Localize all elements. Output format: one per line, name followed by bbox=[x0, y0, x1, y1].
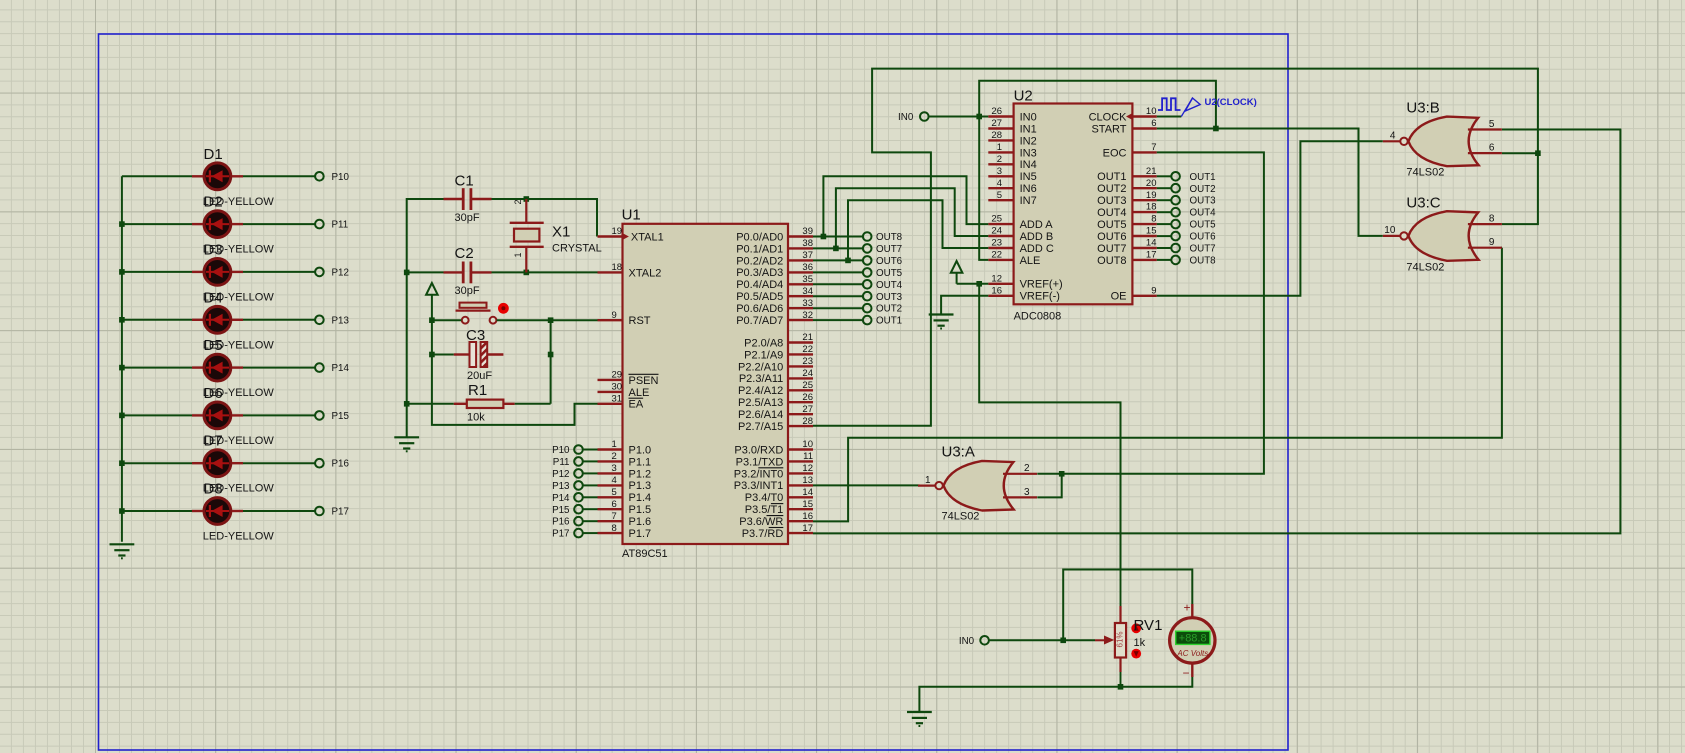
U1 pin 16 P3.6/WR bbox=[739, 511, 813, 528]
svg-text:P1.3: P1.3 bbox=[629, 480, 652, 492]
U2 pin 24 ADD B bbox=[988, 226, 1053, 243]
svg-text:1: 1 bbox=[925, 475, 931, 486]
LED D5 bbox=[192, 337, 274, 399]
wire terminal P10 to U1 bbox=[583, 449, 598, 451]
wire U3:A input 3 tie bbox=[1037, 474, 1061, 498]
svg-text:D7: D7 bbox=[204, 433, 223, 450]
svg-text:D8: D8 bbox=[204, 481, 223, 498]
svg-text:OUT6: OUT6 bbox=[1190, 232, 1217, 243]
svg-text:IN0: IN0 bbox=[898, 112, 914, 123]
wire P2.7 to U3:B.6 and U3:C.8 bbox=[813, 69, 1538, 426]
terminal P13 bbox=[315, 316, 324, 325]
U1 pin 13 P3.3/INT1 bbox=[734, 475, 813, 492]
wire C3 left bbox=[432, 354, 454, 356]
svg-text:OUT1: OUT1 bbox=[876, 316, 902, 327]
wire bus to D5 bbox=[122, 367, 192, 369]
svg-text:28: 28 bbox=[802, 416, 813, 427]
push button RESET bbox=[456, 303, 509, 324]
svg-text:U3:A: U3:A bbox=[942, 444, 975, 461]
U1 pin 18 XTAL2 bbox=[598, 262, 662, 279]
svg-text:23: 23 bbox=[802, 356, 813, 367]
svg-text:P10: P10 bbox=[552, 445, 570, 456]
U1 pin 35 P0.4/AD4 bbox=[736, 274, 813, 291]
wire U2 OUT7 to terminal bbox=[1157, 247, 1172, 249]
U1 pin 8 P1.7 bbox=[598, 523, 652, 540]
wire LED cathode bus bbox=[121, 176, 123, 542]
terminal P17 at U1 bbox=[552, 529, 583, 540]
wire U2 OUT1 to terminal bbox=[1157, 175, 1172, 177]
svg-text:1k: 1k bbox=[1134, 637, 1146, 649]
U2 pin 14 OUT7 bbox=[1097, 238, 1157, 255]
U1 pin 17 P3.7/RD bbox=[742, 523, 813, 540]
svg-text:OUT3: OUT3 bbox=[1190, 196, 1217, 207]
svg-text:8: 8 bbox=[1489, 214, 1495, 225]
wire U2 OUT6 to terminal bbox=[1157, 235, 1172, 237]
U1 pin 25 P2.4/A12 bbox=[738, 380, 813, 397]
U2 pin 20 OUT2 bbox=[1097, 178, 1157, 195]
terminal OUT3 left bbox=[863, 292, 903, 303]
svg-text:30pF: 30pF bbox=[455, 212, 480, 224]
wire START to U3:C.10 bbox=[1157, 129, 1383, 236]
svg-text:P2.3/A11: P2.3/A11 bbox=[739, 373, 783, 385]
svg-text:P3.3/INT1: P3.3/INT1 bbox=[734, 480, 784, 492]
LED D4 bbox=[192, 289, 274, 351]
ground G3 VREF- bbox=[929, 313, 954, 315]
terminal OUT4 left bbox=[863, 280, 903, 291]
svg-text:16: 16 bbox=[991, 285, 1002, 296]
terminal P10 bbox=[315, 172, 324, 181]
junction VREF+ bbox=[976, 281, 982, 287]
terminal P15 at U1 bbox=[552, 505, 583, 516]
svg-text:CLOCK: CLOCK bbox=[1089, 111, 1128, 123]
svg-text:5: 5 bbox=[612, 487, 617, 498]
svg-text:13: 13 bbox=[802, 475, 813, 486]
svg-text:D1: D1 bbox=[204, 146, 223, 163]
wire U2 OUT2 to terminal bbox=[1157, 187, 1172, 189]
svg-text:P14: P14 bbox=[552, 493, 570, 504]
svg-text:ADD B: ADD B bbox=[1020, 231, 1054, 243]
svg-text:OUT5: OUT5 bbox=[1190, 220, 1217, 231]
wire RST row left bbox=[432, 319, 462, 321]
svg-text:R1: R1 bbox=[468, 382, 487, 399]
svg-text:D3: D3 bbox=[204, 241, 223, 258]
svg-text:10: 10 bbox=[1146, 106, 1157, 117]
svg-text:P14: P14 bbox=[332, 363, 350, 374]
svg-text:IN5: IN5 bbox=[1020, 171, 1037, 183]
junction RST right bbox=[548, 317, 554, 323]
U2 pin 1 IN3 bbox=[988, 142, 1036, 159]
svg-text:P3.2/INT0: P3.2/INT0 bbox=[734, 468, 784, 480]
svg-text:P3.7/RD: P3.7/RD bbox=[742, 528, 784, 540]
svg-text:D2: D2 bbox=[204, 194, 223, 211]
LED D6 bbox=[192, 385, 274, 447]
svg-text:LED-YELLOW: LED-YELLOW bbox=[203, 531, 275, 543]
svg-text:OUT8: OUT8 bbox=[876, 232, 903, 243]
svg-text:30: 30 bbox=[612, 382, 623, 393]
svg-text:IN1: IN1 bbox=[1020, 123, 1037, 135]
svg-text:C2: C2 bbox=[455, 245, 474, 262]
U2 pin 3 IN5 bbox=[988, 166, 1036, 183]
terminal OUT2 left bbox=[863, 304, 902, 315]
svg-text:IN3: IN3 bbox=[1020, 147, 1037, 159]
wire terminal P14 to U1 bbox=[583, 496, 598, 498]
U1 pin 7 P1.6 bbox=[598, 511, 652, 528]
U1 pin 39 P0.0/AD0 bbox=[736, 226, 813, 243]
wire U1 P0.1 to terminal OUT7 bbox=[813, 247, 863, 249]
svg-text:RST: RST bbox=[629, 315, 651, 327]
svg-text:14: 14 bbox=[1146, 238, 1157, 249]
wire C2 left bbox=[407, 271, 444, 273]
U1 pin 34 P0.5/AD5 bbox=[736, 286, 813, 303]
LED D3 bbox=[192, 241, 274, 303]
svg-text:15: 15 bbox=[1146, 226, 1157, 237]
svg-text:D6: D6 bbox=[204, 385, 223, 402]
ground G4 bottom bbox=[907, 711, 932, 713]
svg-text:10: 10 bbox=[802, 439, 813, 450]
resistor R1 bbox=[454, 382, 515, 424]
svg-text:4: 4 bbox=[1390, 131, 1396, 142]
svg-text:31: 31 bbox=[612, 393, 623, 404]
svg-text:P15: P15 bbox=[552, 505, 570, 516]
U2 pin 23 ADD C bbox=[988, 238, 1054, 255]
svg-text:ALE: ALE bbox=[1020, 255, 1041, 267]
svg-text:ADD A: ADD A bbox=[1020, 219, 1054, 231]
wire IN0 to RV1 wiper bbox=[989, 639, 1095, 641]
junction U3:A input tie bbox=[1059, 471, 1065, 477]
terminal P13 at U1 bbox=[552, 481, 583, 492]
junction RV1 bottom bbox=[1118, 684, 1124, 690]
svg-text:27: 27 bbox=[991, 118, 1002, 129]
wire terminal P13 to U1 bbox=[583, 484, 598, 486]
svg-text:P3.5/T1: P3.5/T1 bbox=[745, 504, 784, 516]
U2 pin 17 OUT8 bbox=[1097, 250, 1157, 267]
svg-text:24: 24 bbox=[802, 368, 813, 379]
svg-text:ALE: ALE bbox=[629, 387, 650, 399]
svg-text:9: 9 bbox=[1489, 237, 1495, 248]
junction LED bus row D5 bbox=[119, 365, 125, 371]
U2 pin 26 IN0 bbox=[988, 106, 1036, 123]
junction RST vertical at C3 bbox=[429, 352, 435, 358]
svg-text:9: 9 bbox=[1151, 285, 1156, 296]
svg-text:P2.6/A14: P2.6/A14 bbox=[738, 409, 783, 421]
wire bus to D6 bbox=[122, 414, 192, 416]
svg-text:OUT4: OUT4 bbox=[876, 280, 903, 291]
wire bus to D1 bbox=[122, 175, 192, 177]
wire RST loop to EA bbox=[432, 320, 598, 425]
svg-text:C1: C1 bbox=[455, 173, 474, 190]
U1 pin 38 P0.1/AD1 bbox=[736, 238, 813, 255]
U2 pin 4 IN6 bbox=[988, 178, 1036, 195]
svg-text:P3.4/T0: P3.4/T0 bbox=[745, 492, 784, 504]
svg-text:OUT8: OUT8 bbox=[1190, 255, 1217, 266]
svg-text:P13: P13 bbox=[332, 315, 350, 326]
svg-text:CRYSTAL: CRYSTAL bbox=[552, 243, 602, 255]
wire U2 OUT8 to terminal bbox=[1157, 259, 1172, 261]
svg-text:4: 4 bbox=[997, 178, 1002, 189]
svg-text:IN2: IN2 bbox=[1020, 135, 1037, 147]
svg-text:2: 2 bbox=[1024, 463, 1030, 474]
wire U1 P0.2 to terminal OUT6 bbox=[813, 259, 863, 261]
svg-text:VREF(+): VREF(+) bbox=[1020, 279, 1063, 291]
svg-text:P0.7/AD7: P0.7/AD7 bbox=[736, 315, 783, 327]
U1 pin 24 P2.3/A11 bbox=[739, 368, 813, 385]
svg-text:P16: P16 bbox=[332, 459, 350, 470]
terminal OUT5 left bbox=[863, 268, 903, 279]
wire D4 to terminal P13 bbox=[243, 319, 315, 321]
svg-text:+: + bbox=[1183, 601, 1190, 615]
wire terminal P16 to U1 bbox=[583, 520, 598, 522]
wire VREF+ to RV1 top bbox=[979, 284, 1120, 570]
svg-text:8: 8 bbox=[1151, 214, 1156, 225]
U1 pin 19 XTAL1 bbox=[598, 226, 664, 243]
svg-text:P0.5/AD5: P0.5/AD5 bbox=[736, 291, 783, 303]
svg-text:P15: P15 bbox=[332, 411, 350, 422]
junction LED bus row D6 bbox=[119, 413, 125, 419]
wire D3 to terminal P12 bbox=[243, 271, 315, 273]
svg-text:OUT3: OUT3 bbox=[1097, 195, 1126, 207]
wire branch U3:B pin 6 bbox=[1502, 152, 1538, 154]
svg-text:2: 2 bbox=[513, 199, 523, 204]
svg-text:P2.0/A8: P2.0/A8 bbox=[744, 337, 783, 349]
svg-text:61%: 61% bbox=[1116, 631, 1125, 647]
wire P3.6/WR to U3:C.9 bbox=[813, 248, 1502, 522]
U1 pin 15 P3.5/T1 bbox=[745, 499, 813, 516]
junction LED bus row D7 bbox=[119, 460, 125, 466]
svg-text:OUT8: OUT8 bbox=[1097, 255, 1126, 267]
wire bus to D8 bbox=[122, 510, 192, 512]
svg-text:P12: P12 bbox=[332, 267, 349, 278]
junction START riser bbox=[1213, 126, 1219, 132]
U1 pin 26 P2.5/A13 bbox=[738, 392, 813, 409]
svg-text:OUT2: OUT2 bbox=[1190, 184, 1216, 195]
svg-text:22: 22 bbox=[802, 344, 813, 355]
terminal P14 bbox=[315, 363, 324, 372]
svg-text:OUT6: OUT6 bbox=[876, 256, 903, 267]
svg-text:28: 28 bbox=[991, 130, 1002, 141]
svg-text:15: 15 bbox=[802, 499, 813, 510]
wire D1 to terminal P10 bbox=[243, 175, 315, 177]
svg-text:IN7: IN7 bbox=[1020, 195, 1037, 207]
wire U1 P0.6 to terminal OUT2 bbox=[813, 307, 863, 309]
terminal OUT7 left bbox=[863, 244, 902, 255]
junction crystal pin1 bbox=[524, 270, 530, 276]
ground LED bus bbox=[110, 543, 135, 545]
svg-text:1: 1 bbox=[513, 252, 523, 257]
svg-text:AC Volts: AC Volts bbox=[1176, 649, 1208, 658]
svg-text:25: 25 bbox=[802, 380, 813, 391]
svg-text:5: 5 bbox=[1489, 119, 1495, 130]
svg-text:P1.5: P1.5 bbox=[629, 504, 652, 516]
svg-text:XTAL2: XTAL2 bbox=[629, 267, 662, 279]
svg-text:RV1: RV1 bbox=[1134, 617, 1163, 634]
svg-text:12: 12 bbox=[991, 273, 1002, 284]
wire START riser to ALE bbox=[979, 81, 1216, 260]
capacitor C3 bbox=[454, 327, 504, 382]
svg-text:P3.0/RXD: P3.0/RXD bbox=[734, 444, 783, 456]
ADC U2 ADC0808 body bbox=[1014, 104, 1133, 305]
svg-text:P3.1/TXD: P3.1/TXD bbox=[736, 456, 784, 468]
svg-text:38: 38 bbox=[802, 238, 813, 249]
junction P0.2 bbox=[845, 258, 851, 264]
NOR gate U3:A 74LS02 bbox=[944, 461, 1014, 511]
svg-text:4: 4 bbox=[612, 475, 617, 486]
wire P3.3/INT1 to U3:A output bbox=[813, 484, 920, 486]
U1 pin 14 P3.4/T0 bbox=[745, 487, 813, 504]
svg-text:33: 33 bbox=[802, 298, 813, 309]
svg-text:U2(CLOCK): U2(CLOCK) bbox=[1205, 97, 1257, 108]
U2 pin 10 CLOCK bbox=[1089, 106, 1157, 123]
svg-text:3: 3 bbox=[1024, 487, 1030, 498]
svg-text:OUT4: OUT4 bbox=[1097, 207, 1126, 219]
svg-text:X1: X1 bbox=[552, 224, 570, 241]
capacitor C2 bbox=[444, 245, 492, 297]
wire U1 P0.5 to terminal OUT3 bbox=[813, 295, 863, 297]
svg-text:74LS02: 74LS02 bbox=[1406, 167, 1444, 179]
svg-text:3: 3 bbox=[612, 463, 617, 474]
svg-text:1: 1 bbox=[997, 142, 1002, 153]
wire terminal P15 to U1 bbox=[583, 508, 598, 510]
U1 pin 12 P3.2/INT0 bbox=[734, 463, 813, 480]
svg-text:D5: D5 bbox=[204, 337, 223, 354]
svg-text:P0.2/AD2: P0.2/AD2 bbox=[736, 255, 783, 267]
U1 pin 29 PSEN bbox=[598, 370, 659, 387]
wire U1 P0.7 to terminal OUT1 bbox=[813, 319, 863, 321]
wire EOC to U3:A inputs bbox=[1037, 152, 1264, 473]
U2 pin 19 OUT3 bbox=[1097, 190, 1157, 207]
svg-text:10: 10 bbox=[1384, 225, 1396, 236]
terminal OUT7 right bbox=[1171, 244, 1215, 255]
wire bus to D7 bbox=[122, 462, 192, 464]
svg-text:7: 7 bbox=[612, 511, 617, 522]
U2 pin 16 VREF(-) bbox=[988, 285, 1060, 302]
svg-text:P0.4/AD4: P0.4/AD4 bbox=[736, 279, 783, 291]
U2 pin 8 OUT5 bbox=[1097, 214, 1157, 231]
svg-text:OUT2: OUT2 bbox=[1097, 183, 1126, 195]
terminal OUT1 left bbox=[863, 316, 902, 327]
svg-text:27: 27 bbox=[802, 404, 813, 415]
wire VREF- to ground bbox=[941, 296, 988, 315]
U1 pin 23 P2.2/A10 bbox=[738, 356, 813, 373]
svg-text:−: − bbox=[1182, 666, 1189, 680]
wire riser to voltmeter plus bbox=[1063, 570, 1192, 641]
terminal OUT8 left bbox=[863, 232, 903, 243]
svg-text:19: 19 bbox=[612, 226, 623, 237]
svg-text:P16: P16 bbox=[552, 517, 570, 528]
svg-text:26: 26 bbox=[802, 392, 813, 403]
svg-text:OUT3: OUT3 bbox=[876, 292, 903, 303]
svg-text:74LS02: 74LS02 bbox=[942, 511, 980, 523]
svg-text:32: 32 bbox=[802, 310, 813, 321]
terminal OUT5 right bbox=[1171, 220, 1216, 231]
terminal P11 bbox=[315, 220, 324, 229]
terminal P12 bbox=[315, 268, 324, 277]
svg-text:PSEN: PSEN bbox=[629, 375, 659, 387]
terminal OUT3 right bbox=[1171, 196, 1216, 207]
wire R1 right bbox=[515, 403, 551, 405]
junction U3:B pin 6 bbox=[1535, 150, 1541, 156]
svg-text:P2.5/A13: P2.5/A13 bbox=[738, 397, 783, 409]
svg-text:C3: C3 bbox=[466, 327, 485, 344]
junction C3 right bbox=[548, 352, 554, 358]
wire D2 to terminal P11 bbox=[243, 223, 315, 225]
svg-text:P17: P17 bbox=[552, 529, 569, 540]
svg-text:6: 6 bbox=[1151, 118, 1156, 129]
svg-text:OUT1: OUT1 bbox=[1097, 171, 1126, 183]
wire C2 to XTAL2 bbox=[492, 271, 598, 273]
svg-text:+88.8: +88.8 bbox=[1179, 633, 1207, 645]
svg-text:P11: P11 bbox=[553, 457, 570, 468]
wire P3.7/RD to U3:B.5 bbox=[813, 130, 1620, 534]
LED D2 bbox=[192, 194, 274, 256]
wire P0.1 to ADD B bbox=[836, 188, 988, 248]
wire terminal P12 to U1 bbox=[583, 472, 598, 474]
U1 pin 31 EA bbox=[598, 393, 644, 410]
U2 pin 2 IN4 bbox=[988, 154, 1036, 171]
svg-text:U3:B: U3:B bbox=[1406, 100, 1439, 117]
svg-text:37: 37 bbox=[802, 250, 813, 261]
junction VCC stem at RST row bbox=[429, 317, 435, 323]
svg-text:35: 35 bbox=[802, 274, 813, 285]
svg-text:D4: D4 bbox=[204, 289, 223, 306]
clock generator glyph U2(CLOCK) bbox=[1157, 97, 1257, 117]
crystal X1 bbox=[510, 199, 602, 272]
svg-text:OUT7: OUT7 bbox=[876, 244, 902, 255]
svg-text:3: 3 bbox=[997, 166, 1002, 177]
wire D7 to terminal P16 bbox=[243, 462, 315, 464]
svg-text:OUT5: OUT5 bbox=[1097, 219, 1126, 231]
terminal IN0 bottom bbox=[959, 636, 989, 647]
svg-text:21: 21 bbox=[1146, 166, 1157, 177]
svg-text:P17: P17 bbox=[332, 507, 349, 518]
terminal P12 at U1 bbox=[552, 469, 583, 480]
svg-text:OUT7: OUT7 bbox=[1097, 243, 1126, 255]
LED D8 bbox=[192, 481, 274, 543]
svg-text:OUT5: OUT5 bbox=[876, 268, 903, 279]
svg-text:P3.6/WR: P3.6/WR bbox=[739, 516, 783, 528]
junction LED bus row D8 bbox=[119, 508, 125, 514]
wire D8 to terminal P17 bbox=[243, 510, 315, 512]
wire bus to D3 bbox=[122, 271, 192, 273]
svg-text:EA: EA bbox=[629, 399, 644, 411]
svg-text:IN0: IN0 bbox=[959, 636, 975, 647]
svg-text:34: 34 bbox=[802, 286, 813, 297]
terminal P11 at U1 bbox=[553, 457, 583, 468]
wire RST to C3 right bbox=[550, 320, 552, 404]
svg-text:6: 6 bbox=[612, 499, 617, 510]
svg-text:36: 36 bbox=[802, 262, 813, 273]
U1 pin 1 P1.0 bbox=[598, 439, 652, 456]
svg-text:P2.7/A15: P2.7/A15 bbox=[738, 421, 783, 433]
U2 pin 12 VREF(+) bbox=[988, 273, 1062, 290]
U2 pin 9 OE bbox=[1111, 285, 1157, 302]
svg-text:23: 23 bbox=[991, 238, 1002, 249]
terminal OUT6 right bbox=[1171, 232, 1216, 243]
svg-text:20: 20 bbox=[1146, 178, 1157, 189]
U2 pin 27 IN1 bbox=[988, 118, 1036, 135]
svg-text:P0.1/AD1: P0.1/AD1 bbox=[736, 243, 783, 255]
U1 pin 28 P2.7/A15 bbox=[738, 416, 813, 433]
wire U2 OUT3 to terminal bbox=[1157, 199, 1172, 201]
svg-text:1: 1 bbox=[612, 439, 617, 450]
svg-text:ADD C: ADD C bbox=[1020, 243, 1054, 255]
wire OE to U3:B.4 bbox=[1157, 141, 1383, 295]
junction IN0 row riser bbox=[976, 114, 982, 120]
svg-text:OUT4: OUT4 bbox=[1190, 208, 1217, 219]
svg-text:VREF(-): VREF(-) bbox=[1020, 291, 1060, 303]
terminal P16 at U1 bbox=[552, 517, 583, 528]
terminal P17 bbox=[315, 507, 324, 516]
wire U2 OUT4 to terminal bbox=[1157, 211, 1172, 213]
